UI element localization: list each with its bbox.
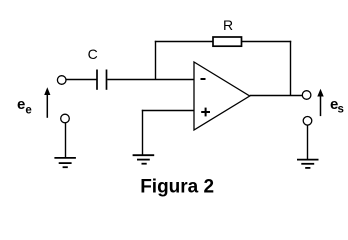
wire feedback top left: [155, 41, 213, 43]
caption Figura 2: [140, 176, 214, 197]
ground (non-inverting input): [133, 155, 155, 164]
wire feedback right vertical: [290, 41, 292, 96]
label e_s: [330, 96, 344, 115]
svg-text:ee: ee: [17, 96, 32, 117]
input lower terminal circle: [61, 114, 70, 123]
ground (output): [297, 160, 319, 168]
arrow e_e polarity: [44, 87, 50, 118]
wire non-inverting input: [142, 110, 194, 112]
wire input terminal to capacitor: [66, 79, 97, 81]
output lower terminal circle: [303, 117, 312, 126]
svg-text:R: R: [223, 17, 233, 33]
svg-text:Figura 2: Figura 2: [140, 176, 214, 197]
capacitor C: [97, 70, 107, 90]
resistor R: [213, 37, 242, 46]
svg-text:es: es: [330, 96, 344, 115]
label R: [223, 17, 233, 33]
label e_e: [17, 96, 32, 117]
arrow e_s polarity: [317, 89, 323, 116]
output terminal circle (e_s +): [302, 91, 311, 100]
op-amp U1: [194, 62, 250, 130]
node junction feedback tap: [155, 41, 157, 80]
label C: [88, 46, 98, 62]
wire output lower terminal to ground: [307, 125, 309, 160]
svg-text:C: C: [88, 46, 98, 62]
wire non-inverting to ground vertical: [142, 110, 144, 155]
wire feedback top right: [242, 41, 292, 43]
wire input lower terminal to ground: [65, 123, 67, 158]
wire op-amp output: [250, 95, 303, 97]
wire capacitor to op-amp inverting input: [107, 79, 194, 81]
ground (input): [54, 158, 76, 167]
input terminal circle (e_e +): [57, 76, 66, 85]
